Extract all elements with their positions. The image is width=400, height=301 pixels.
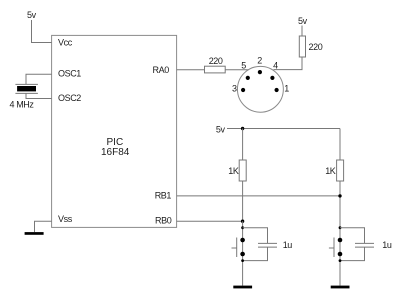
- wire capacitor C2 bottom return: [340, 248, 365, 261]
- capacitor C1 bottom plate: [258, 246, 277, 248]
- IC U1 PIC 16F84 body: [52, 35, 177, 227]
- svg-text:5v: 5v: [298, 16, 308, 26]
- wire crystal to OSC2 pin: [26, 93, 52, 98]
- crystal X1 top plate: [15, 83, 38, 85]
- svg-text:OSC1: OSC1: [58, 68, 81, 78]
- svg-text:1K: 1K: [325, 166, 336, 176]
- svg-text:1u: 1u: [382, 240, 392, 250]
- resistor R3 1K body: [239, 160, 246, 181]
- junction node cap C2 bottom: [339, 259, 342, 262]
- connector J1 DIN circle: [237, 66, 283, 112]
- wire DIN to resistor R2: [274, 57, 303, 70]
- svg-text:5: 5: [241, 60, 246, 70]
- wire R1 to DIN connector: [225, 69, 249, 71]
- wire 5v rail: [227, 128, 340, 130]
- pin 2 dot: [258, 70, 262, 74]
- wire R3 to RB0 node: [242, 181, 244, 221]
- wire Vss pin to ground: [35, 221, 52, 232]
- ground (right button): [331, 286, 350, 289]
- pin 3 dot: [241, 88, 245, 92]
- svg-text:5v: 5v: [216, 124, 226, 134]
- wire rail to resistor R4: [339, 129, 341, 161]
- resistor R1 220 body: [205, 66, 226, 73]
- junction node RB1/R4: [338, 194, 341, 197]
- resistor R2 220 body: [299, 36, 305, 57]
- svg-text:220: 220: [309, 42, 323, 52]
- crystal X1 bottom plate: [15, 92, 38, 94]
- wire to capacitor C1 top: [243, 228, 268, 244]
- wire 5v to Vcc pin: [32, 20, 52, 43]
- wire RB0 to R3 bottom: [177, 220, 243, 222]
- switch S2 actuator bar: [333, 238, 335, 258]
- svg-text:Vcc: Vcc: [58, 38, 73, 48]
- pin 5 dot: [246, 76, 250, 80]
- svg-text:4: 4: [273, 60, 278, 70]
- switch S1 contact top: [240, 238, 245, 243]
- svg-text:RA0: RA0: [153, 65, 170, 75]
- resistor R4 1K body: [337, 160, 344, 181]
- switch S1 actuator stem: [232, 247, 237, 249]
- svg-text:1u: 1u: [283, 240, 293, 250]
- svg-text:4 MHz: 4 MHz: [10, 100, 35, 110]
- switch S1 contact bottom: [240, 252, 245, 257]
- switch S2 actuator stem: [329, 247, 334, 249]
- junction node rail/R3: [241, 127, 244, 130]
- switch S1 actuator bar: [236, 238, 238, 258]
- svg-text:2: 2: [257, 55, 262, 65]
- capacitor C2 top plate: [355, 242, 374, 244]
- svg-text:RB0: RB0: [155, 216, 172, 226]
- wire OSC1 pin to crystal: [26, 74, 52, 84]
- svg-text:16F84: 16F84: [101, 147, 130, 158]
- junction node cap C2 top: [339, 226, 342, 229]
- ground (left button): [233, 286, 252, 289]
- wire R4 down through RB1 node to switch S2: [339, 181, 341, 286]
- junction node cap C1 top: [241, 226, 244, 229]
- svg-text:OSC2: OSC2: [58, 93, 81, 103]
- capacitor C2 bottom plate: [355, 246, 374, 248]
- switch S2 contact top: [338, 238, 343, 243]
- pin 4 dot: [270, 76, 274, 80]
- wire capacitor C1 bottom return: [243, 248, 268, 261]
- switch S2 contact bottom: [338, 252, 343, 257]
- capacitor C1 top plate: [258, 242, 277, 244]
- pin 1 dot: [275, 88, 279, 92]
- wire rail to resistor R3: [242, 129, 244, 161]
- wire to capacitor C2 top: [340, 228, 365, 244]
- svg-text:220: 220: [209, 56, 223, 66]
- svg-text:1K: 1K: [228, 166, 239, 176]
- svg-text:1: 1: [284, 84, 289, 94]
- svg-text:3: 3: [232, 84, 237, 94]
- svg-text:5v: 5v: [27, 10, 37, 20]
- junction node RB0/R3: [241, 220, 244, 223]
- ground (Vss): [25, 232, 44, 235]
- svg-text:RB1: RB1: [155, 190, 172, 200]
- wire RB1 to R4 bottom: [177, 195, 340, 197]
- wire RB0 node down to ground (left branch): [242, 221, 244, 285]
- wire RA0 to resistor R1: [177, 69, 205, 71]
- wire R2 to 5v: [301, 26, 303, 37]
- svg-text:Vss: Vss: [58, 214, 73, 224]
- crystal X1 body: [17, 86, 36, 91]
- junction node cap C1 bottom: [241, 259, 244, 262]
